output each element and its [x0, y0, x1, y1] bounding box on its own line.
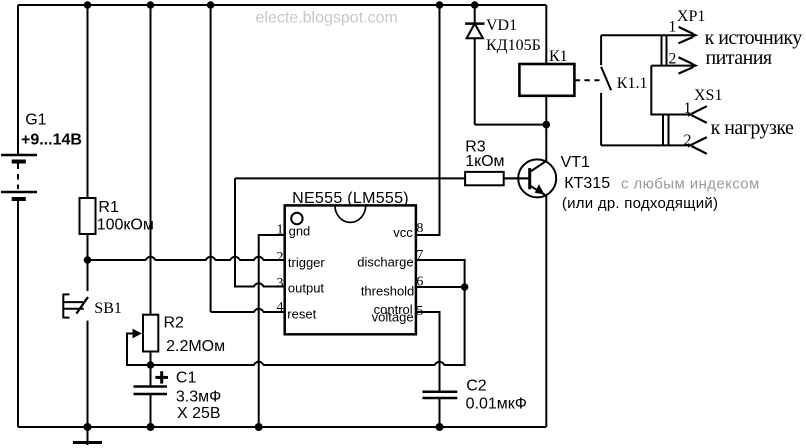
svg-text:discharge: discharge	[357, 255, 413, 270]
svg-text:2.2МОм: 2.2МОм	[166, 338, 225, 355]
svg-text:3.3мФ: 3.3мФ	[176, 388, 221, 405]
svg-text:XS1: XS1	[694, 87, 722, 104]
svg-text:output: output	[288, 280, 325, 295]
svg-text:reset: reset	[287, 307, 316, 322]
svg-text:7: 7	[416, 248, 423, 263]
svg-text:3: 3	[277, 276, 284, 291]
svg-text:КД105Б: КД105Б	[486, 37, 541, 54]
svg-text:1: 1	[668, 19, 676, 36]
svg-text:1: 1	[277, 223, 284, 238]
svg-text:питания: питания	[706, 47, 772, 69]
svg-text:X 25В: X 25В	[177, 405, 221, 422]
svg-text:6: 6	[416, 275, 423, 290]
svg-text:КТ315: КТ315	[564, 175, 610, 192]
svg-text:VD1: VD1	[486, 17, 517, 34]
svg-text:с любым индексом: с любым индексом	[621, 176, 760, 193]
svg-text:0.01мкФ: 0.01мкФ	[466, 396, 527, 413]
svg-text:XP1: XP1	[677, 8, 705, 25]
svg-text:threshold: threshold	[361, 283, 414, 298]
svg-text:electe.blogspot.com: electe.blogspot.com	[256, 10, 398, 27]
svg-text:2: 2	[684, 132, 692, 149]
svg-text:R1: R1	[98, 199, 119, 216]
svg-text:G1: G1	[25, 112, 46, 129]
svg-text:vcc: vcc	[393, 225, 413, 240]
svg-text:NE555 (LM555): NE555 (LM555)	[292, 190, 409, 207]
svg-text:2: 2	[277, 250, 284, 265]
svg-text:R2: R2	[164, 315, 185, 332]
svg-text:(или др. подходящий): (или др. подходящий)	[562, 195, 718, 212]
svg-text:VT1: VT1	[561, 154, 590, 171]
svg-text:SB1: SB1	[94, 300, 122, 317]
svg-text:2: 2	[668, 51, 676, 68]
svg-text:+9...14В: +9...14В	[21, 132, 82, 149]
svg-text:К1: К1	[549, 48, 568, 65]
svg-text:100кОм: 100кОм	[97, 217, 154, 234]
svg-text:trigger: trigger	[288, 255, 326, 270]
svg-text:4: 4	[277, 300, 284, 315]
svg-text:1: 1	[684, 100, 692, 117]
svg-text:C1: C1	[176, 369, 197, 386]
svg-text:К1.1: К1.1	[617, 75, 648, 92]
svg-text:gnd: gnd	[289, 224, 311, 239]
svg-text:8: 8	[416, 221, 423, 236]
svg-text:C2: C2	[466, 378, 487, 395]
svg-text:1кОм: 1кОм	[465, 153, 504, 170]
svg-text:5: 5	[416, 304, 423, 319]
svg-text:voltage: voltage	[372, 310, 414, 325]
svg-text:к нагрузке: к нагрузке	[711, 117, 794, 139]
